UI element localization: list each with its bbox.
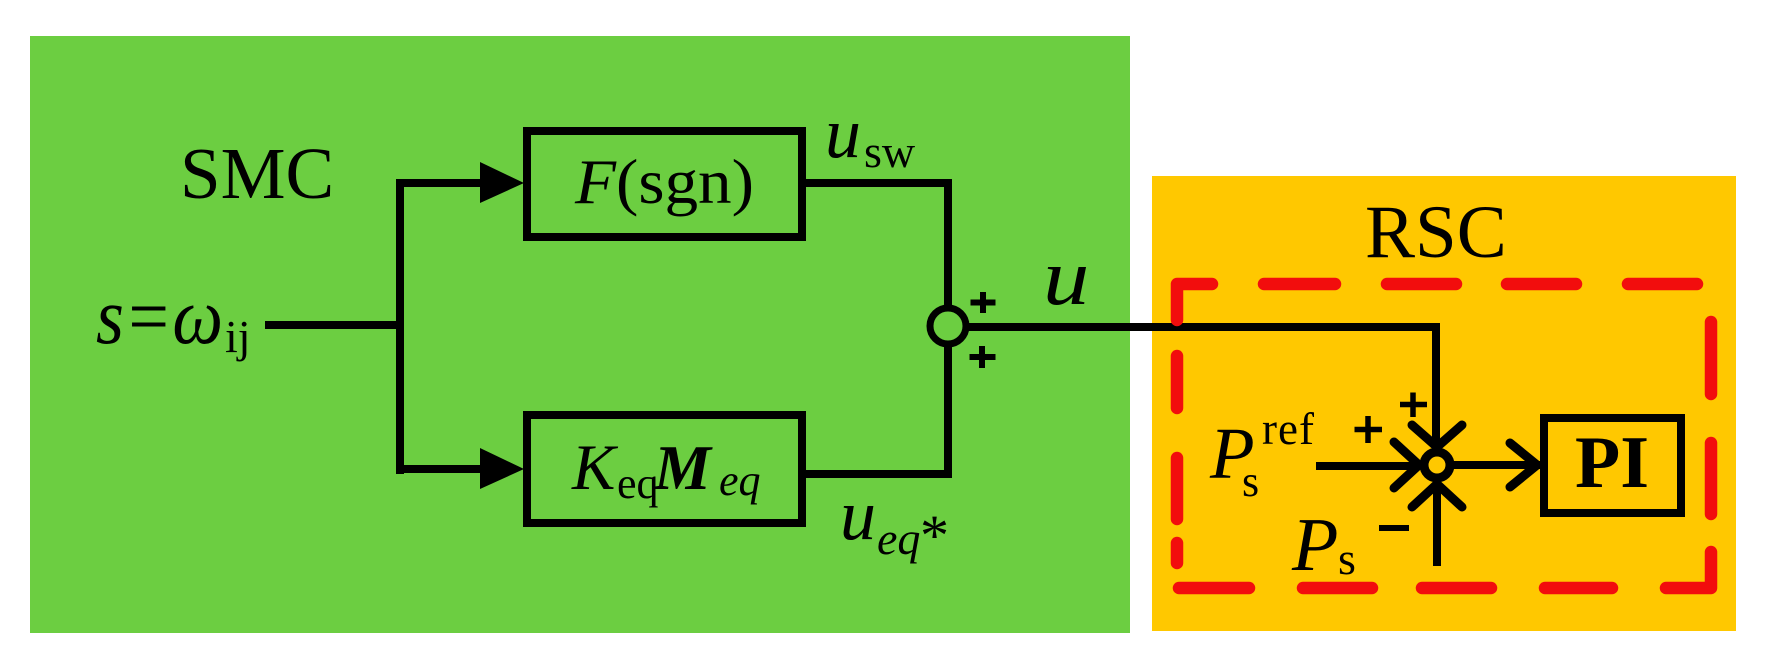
svg-text:eq: eq [617,459,659,508]
wire sum output u [964,323,1440,447]
dash top 4 [1507,278,1576,291]
svg-text:u: u [840,475,876,555]
plus sign top [971,292,996,313]
RSC panel [1152,176,1736,631]
dash bottom 3 [1422,582,1491,595]
svg-text:ij: ij [225,311,251,362]
svg-text:P: P [1291,503,1338,587]
plus sign near top arrow [1400,393,1427,418]
minus sign near bottom arrow [1379,525,1409,531]
wire input s to branch [265,321,404,329]
svg-text:eq: eq [877,513,920,564]
dash corner top-left [1177,284,1212,320]
svg-text:PI: PI [1575,422,1649,504]
dash bottom 4 [1545,582,1612,595]
svg-text:K: K [571,432,619,504]
dash corner bottom-right [1666,552,1711,588]
dash left 2 [1171,356,1184,408]
dash right 1 [1705,322,1718,394]
summing junction circle [930,308,966,344]
label u_eq* [840,475,949,568]
svg-text:s: s [1242,457,1259,506]
svg-text:s=ω: s=ω [96,273,223,361]
svg-text:s: s [1338,533,1356,584]
arrowhead into KeqMeq [480,448,524,489]
chevron arrow from bottom [1412,484,1462,507]
wire branch to F(sgn) [396,179,484,187]
label P_s_ref [1209,404,1315,506]
plus sign bottom [970,346,996,368]
chevron arrowhead into PI [1510,443,1537,487]
svg-text:F(sgn): F(sgn) [574,146,754,217]
label P_s [1291,503,1356,587]
plus sign near left arrow [1355,416,1383,443]
dash left 4 [1171,543,1184,563]
chevron arrow from top [1412,425,1462,447]
dash bottom 2 [1303,582,1372,595]
SMC panel [30,36,1130,633]
svg-text:ref: ref [1262,404,1315,454]
red dashed box of RSC [1177,284,1711,588]
dash top 5 [1628,278,1697,291]
svg-text:SMC: SMC [180,133,334,214]
wire Psref to junction [1316,462,1416,470]
dash bottom 1 [1179,582,1249,595]
comparison junction circle [1424,452,1450,478]
svg-text:sw: sw [864,126,916,177]
svg-text:*: * [920,503,949,568]
label u_sw [825,93,916,177]
svg-text:u: u [1043,233,1089,322]
arrowhead into F(sgn) [480,162,524,203]
wire F(sgn) output to sum [806,183,948,308]
block PI [1544,418,1681,513]
wire KeqMeq output to sum [806,344,948,474]
dash top 2 [1264,278,1335,291]
dash right 2 [1705,443,1718,514]
svg-text:u: u [825,93,861,173]
dash top 3 [1387,278,1456,291]
node s=w_ij input label [96,273,251,362]
svg-text:eq: eq [719,456,761,505]
wire junction down to Ps [1433,484,1441,566]
svg-text:M: M [653,432,713,503]
svg-text:RSC: RSC [1365,191,1507,274]
wire branch to KeqMeq [396,465,484,473]
dash left 3 [1171,458,1184,519]
wire branch vertical [396,179,404,474]
wire junction to PI [1454,461,1540,469]
block F(sgn) [527,131,802,237]
block KeqMeq [527,415,802,523]
chevron arrow from left [1394,442,1419,488]
